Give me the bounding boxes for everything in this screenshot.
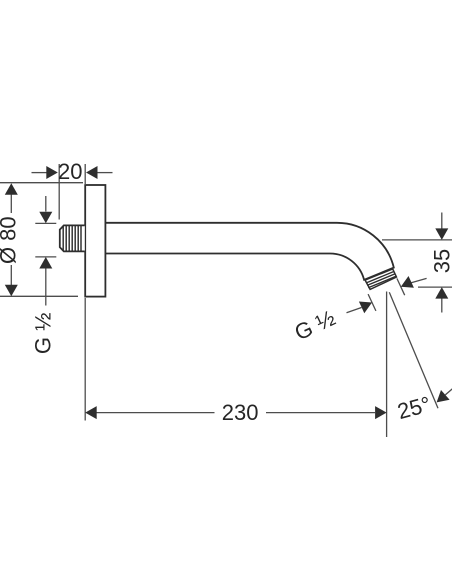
dimension 20 [32,164,113,220]
spout thread dimension G1/2 [347,278,427,312]
svg-text:35: 35 [429,249,452,273]
dimension 230 [85,292,386,438]
svg-text:Ø 80: Ø 80 [0,216,21,264]
spout thread G1/2 [365,269,396,290]
dimension diameter 80 [0,183,83,297]
wall flange plate [85,185,105,297]
wall thread small dimension [35,196,56,306]
wall-side thread G1/2 [60,225,85,251]
svg-text:G ½: G ½ [31,313,56,355]
svg-text:20: 20 [58,159,82,184]
25 degree angle [389,292,438,408]
svg-text:230: 230 [222,400,259,425]
dimension 35 [382,213,452,313]
shower arm tube with bend [105,223,393,280]
